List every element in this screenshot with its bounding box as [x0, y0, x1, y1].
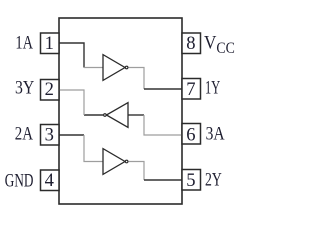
- pin 4 box: [41, 170, 60, 191]
- svg-text:GND: GND: [5, 171, 34, 192]
- pin 1 box: [41, 33, 60, 54]
- svg-text:3Y: 3Y: [15, 77, 34, 98]
- bubble gate 1: [125, 66, 128, 69]
- wire pin6 to gate3 input: [144, 115, 182, 135]
- svg-text:3A: 3A: [206, 124, 225, 145]
- wire elbow to gate2 input: [84, 135, 103, 162]
- pin 8 box: [182, 33, 201, 54]
- inverter gate 1 (pin1 1A -> pin7 1Y): [103, 55, 125, 81]
- svg-text:1: 1: [45, 33, 54, 54]
- svg-text:4: 4: [45, 170, 54, 191]
- wire gate1 input stub: [84, 67, 103, 69]
- svg-text:2Y: 2Y: [205, 170, 222, 191]
- svg-text:3: 3: [45, 125, 54, 146]
- pin 7 box: [182, 79, 201, 100]
- wire to pin7: [144, 88, 182, 90]
- svg-text:2: 2: [45, 79, 54, 100]
- bubble gate 3: [104, 114, 107, 117]
- svg-text:7: 7: [186, 79, 195, 100]
- wire pin1 to gate1 input: [59, 43, 84, 68]
- IC body U1: [59, 18, 182, 204]
- svg-text:5: 5: [186, 170, 195, 191]
- pin 6 box: [182, 124, 201, 145]
- pin 2 box: [41, 80, 60, 101]
- svg-text:1A: 1A: [15, 33, 33, 54]
- wire gate1 output: [128, 68, 144, 90]
- svg-text:V: V: [204, 34, 217, 54]
- bubble gate 2: [125, 160, 128, 163]
- inverter gate 2 (pin3 2A -> pin5 2Y): [103, 149, 125, 175]
- svg-text:1Y: 1Y: [205, 77, 220, 98]
- wire pin3 to elbow: [59, 134, 84, 136]
- pin 5 box: [182, 170, 201, 191]
- pin 3 box: [41, 125, 60, 146]
- wire gate2 output: [128, 162, 144, 181]
- wire elbow to pin2: [59, 90, 84, 115]
- wire to pin5: [144, 179, 182, 181]
- svg-text:8: 8: [186, 33, 195, 54]
- inverter gate 3 (pin6 3A -> pin2 3Y, mirrored): [106, 103, 128, 128]
- wire gate3 output to elbow: [84, 114, 103, 116]
- svg-text:CC: CC: [216, 40, 234, 57]
- svg-text:2A: 2A: [15, 124, 34, 145]
- wire gate3 input stub: [128, 114, 144, 116]
- svg-text:6: 6: [186, 125, 195, 146]
